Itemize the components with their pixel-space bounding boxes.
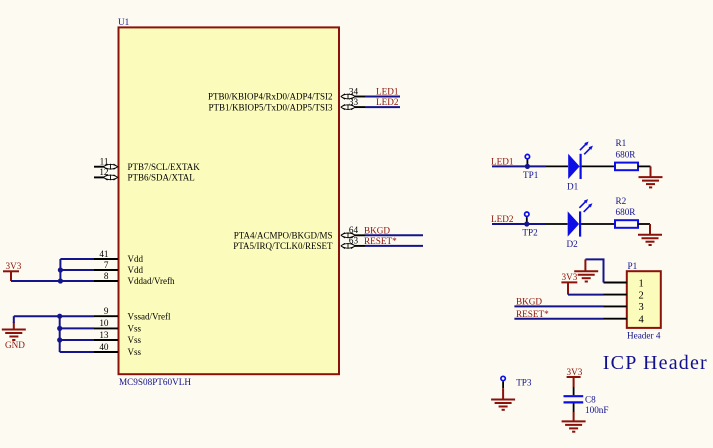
svg-text:33: 33 (349, 97, 359, 107)
power port GND left (2, 322, 26, 350)
wire header pin1 to ground (585, 259, 603, 282)
svg-text:12: 12 (99, 167, 109, 177)
junction Vss pin9 (57, 314, 62, 319)
svg-text:C8: C8 (585, 394, 596, 404)
wire net BKGD to header pin3 (514, 305, 603, 307)
wire net LED1 row (492, 165, 546, 167)
wire Vdd trunk vertical (59, 259, 61, 281)
test point TP1 (523, 154, 539, 180)
LED D1 (546, 142, 615, 192)
svg-text:9: 9 (104, 306, 109, 316)
svg-text:P1: P1 (628, 261, 638, 271)
svg-text:Vdd: Vdd (128, 254, 144, 264)
header pin 4 (604, 315, 645, 326)
pin 63 PTA5/IRQ/TCLK0/RESET (233, 236, 365, 251)
pin 11 PTB7/SCL/EXTAK (94, 157, 200, 172)
svg-text:BKGD: BKGD (364, 225, 390, 235)
junction Vdd pin7 (58, 267, 63, 272)
svg-text:1: 1 (639, 278, 644, 289)
header P1 body (627, 271, 661, 328)
pin 8 Vddad/Vrefh (94, 271, 175, 286)
svg-text:34: 34 (349, 86, 359, 96)
junction Vdd pin8 (58, 278, 63, 283)
wire Vss pin9 (60, 315, 94, 317)
svg-text:TP3: TP3 (516, 377, 532, 387)
svg-text:RESET*: RESET* (516, 309, 549, 319)
svg-text:Vss: Vss (128, 335, 142, 345)
wire GND to Vss trunk (14, 315, 60, 317)
svg-text:Vdd: Vdd (128, 265, 144, 275)
svg-text:10: 10 (99, 318, 109, 328)
svg-text:MC9S08PT60VLH: MC9S08PT60VLH (119, 377, 191, 387)
svg-text:LED2: LED2 (491, 214, 514, 224)
svg-text:R1: R1 (616, 138, 627, 148)
svg-text:GND: GND (5, 340, 25, 350)
ground at TP3 (491, 388, 515, 410)
svg-text:LED1: LED1 (376, 87, 399, 97)
svg-text:D2: D2 (567, 239, 579, 249)
header pin 2 (604, 290, 644, 301)
svg-text:PTB7/SCL/EXTAK: PTB7/SCL/EXTAK (128, 162, 201, 172)
pin 7 Vdd (94, 260, 143, 275)
svg-text:D1: D1 (567, 181, 579, 191)
wire Vss pin40 (60, 351, 94, 353)
svg-text:U1: U1 (118, 17, 130, 27)
svg-text:PTB1/KBIOP5/TxD0/ADP5/TSI3: PTB1/KBIOP5/TxD0/ADP5/TSI3 (208, 102, 333, 112)
svg-text:64: 64 (349, 225, 359, 235)
junction Vss pin10 (57, 326, 62, 331)
pin 12 PTB6/SDA/XTAL (94, 167, 195, 182)
svg-text:11: 11 (100, 157, 109, 167)
wire Vdd pin41 (60, 258, 94, 260)
wire Vss trunk vertical (59, 316, 61, 352)
svg-text:3: 3 (639, 302, 644, 313)
pin 34 PTB0/KBIOP4/RxD0/ADP4/TSI2 (208, 86, 365, 101)
pin 10 Vss (94, 318, 142, 333)
svg-text:Header 4: Header 4 (627, 330, 661, 340)
pin 13 Vss (94, 330, 142, 345)
IC U1 body (119, 27, 340, 374)
svg-text:PTA4/ACMPO/BKGD/MS: PTA4/ACMPO/BKGD/MS (234, 231, 333, 241)
svg-text:41: 41 (99, 249, 109, 259)
ground at C8 (562, 412, 586, 432)
test point TP3 (501, 376, 532, 388)
wire Vdd pin7 (60, 269, 94, 271)
svg-text:Vssad/Vrefl: Vssad/Vrefl (128, 311, 171, 321)
resistor R1 (615, 138, 651, 170)
svg-text:7: 7 (104, 260, 109, 270)
svg-text:Vddad/Vrefh: Vddad/Vrefh (128, 276, 175, 286)
svg-text:63: 63 (349, 236, 359, 246)
junction Vss pin13 (57, 337, 62, 342)
header pin 3 (604, 302, 644, 313)
wire net RESET* to header pin4 (514, 318, 603, 320)
pin 64 PTA4/ACMPO/BKGD/MS (234, 225, 365, 240)
svg-text:3V3: 3V3 (6, 261, 22, 271)
svg-text:PTA5/IRQ/TCLK0/RESET: PTA5/IRQ/TCLK0/RESET (233, 241, 333, 251)
wire Vss pin13 (60, 339, 94, 341)
svg-text:R2: R2 (616, 196, 627, 206)
wire net LED1 at pin 34 (365, 96, 400, 98)
svg-text:3V3: 3V3 (562, 272, 578, 282)
header pin 1 (604, 278, 644, 289)
svg-text:TP1: TP1 (523, 170, 539, 180)
wire net LED2 row (492, 223, 546, 225)
pin 9 Vssad/Vrefl (94, 306, 171, 321)
ground at R2 (638, 224, 662, 245)
svg-text:8: 8 (104, 271, 109, 281)
power port 3V3 left (3, 261, 22, 281)
pin 41 Vdd (94, 249, 143, 264)
wire net RESET* at pin 63 (365, 245, 423, 247)
svg-text:ICP Header: ICP Header (603, 352, 708, 374)
svg-text:2: 2 (639, 290, 644, 301)
svg-text:Vss: Vss (128, 347, 142, 357)
junction TP2 (524, 221, 529, 226)
ground at R1 (639, 166, 663, 187)
svg-text:RESET*: RESET* (364, 236, 397, 246)
capacitor C8 (564, 387, 609, 415)
svg-text:4: 4 (639, 315, 645, 326)
wire 3V3 to Vdd trunk (11, 280, 60, 282)
svg-text:Vss: Vss (128, 324, 142, 334)
resistor R2 (615, 196, 650, 228)
pin 40 Vss (94, 342, 142, 357)
svg-text:13: 13 (99, 330, 109, 340)
LED D2 (546, 199, 615, 249)
svg-text:40: 40 (99, 342, 109, 352)
junction TP1 (525, 164, 530, 169)
svg-text:PTB0/KBIOP4/RxD0/ADP4/TSI2: PTB0/KBIOP4/RxD0/ADP4/TSI2 (208, 92, 333, 102)
svg-text:LED1: LED1 (491, 157, 514, 167)
wire 3V3 to header pin2 (568, 294, 604, 296)
wire GND vertical drop (13, 316, 15, 323)
wire Vss pin10 (60, 327, 94, 329)
svg-text:PTB6/SDA/XTAL: PTB6/SDA/XTAL (128, 173, 195, 183)
svg-text:3V3: 3V3 (567, 367, 583, 377)
wire Vdd pin8 (60, 280, 94, 282)
pin 33 PTB1/KBIOP5/TxD0/ADP5/TSI3 (208, 97, 365, 112)
test point TP2 (522, 212, 538, 238)
svg-text:680R: 680R (616, 149, 637, 159)
svg-text:TP2: TP2 (522, 228, 538, 238)
ground at header pin1 (574, 259, 598, 281)
svg-text:680R: 680R (616, 207, 637, 217)
svg-text:BKGD: BKGD (516, 297, 542, 307)
wire net LED2 at pin 33 (365, 106, 400, 108)
power port 3V3 at C8 (567, 367, 583, 387)
power port 3V3 at header pin2 (561, 272, 577, 295)
wire net BKGD at pin 64 (365, 234, 423, 236)
svg-text:LED2: LED2 (376, 97, 399, 107)
svg-text:100nF: 100nF (585, 405, 609, 415)
